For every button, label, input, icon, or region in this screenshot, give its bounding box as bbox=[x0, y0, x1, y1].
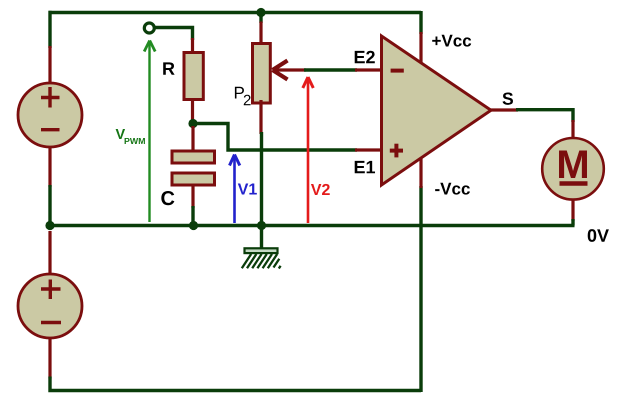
label V2 bbox=[311, 184, 330, 195]
op-amp U1 bbox=[382, 36, 492, 185]
arrow VPWM bbox=[144, 41, 155, 223]
wire -Vcc vertical bbox=[419, 186, 422, 392]
battery B1 top pin bbox=[48, 46, 51, 84]
op-amp U1 inverting marker bbox=[391, 69, 404, 73]
resistor R pin bottom bbox=[191, 98, 194, 123]
label -Vcc bbox=[435, 183, 470, 195]
junction top bus/P2 bbox=[256, 8, 265, 17]
wire top bus bbox=[49, 11, 422, 14]
wire wiper to E2 bbox=[304, 68, 357, 71]
label R bbox=[163, 62, 174, 74]
wire output to motor bbox=[516, 110, 573, 122]
wire +Vcc drop from top bus bbox=[419, 11, 422, 34]
battery B2 bottom pin bbox=[48, 337, 51, 379]
op-amp U1 +Vcc pin bbox=[419, 32, 422, 63]
junction left/0V bus bbox=[45, 221, 54, 230]
wire R/C node to E1 bbox=[195, 124, 357, 151]
capacitor C pin top bbox=[191, 126, 194, 152]
arrow V1 bbox=[230, 155, 240, 224]
terminal node VPWM bbox=[144, 23, 154, 33]
wire P2 to 0V bus bbox=[260, 132, 263, 226]
battery B2 top pin bbox=[48, 231, 51, 275]
wire bottom-left corner to -Vcc bus bbox=[50, 377, 421, 391]
op-amp U1 -Vcc pin bbox=[419, 158, 422, 188]
resistor R bbox=[184, 53, 203, 100]
label C bbox=[161, 191, 174, 205]
resistor R pin top bbox=[191, 38, 194, 55]
label P2 bbox=[235, 87, 251, 105]
potentiometer P2 body bbox=[253, 44, 271, 104]
wire ground stub bbox=[260, 226, 263, 250]
junction C/0V bus bbox=[189, 221, 198, 230]
capacitor C top plate bbox=[172, 151, 215, 163]
op-amp U1 E1 pin bbox=[355, 148, 382, 151]
battery B2 bbox=[18, 274, 82, 338]
arrow V2 bbox=[303, 77, 314, 223]
label E1 bbox=[355, 161, 375, 173]
potentiometer P2 wiper arrow bbox=[273, 61, 307, 80]
label V1 bbox=[238, 183, 257, 194]
ground symbol bbox=[242, 248, 281, 268]
label +Vcc bbox=[432, 35, 471, 47]
wire 0V bus bbox=[50, 224, 575, 227]
op-amp U1 E2 pin bbox=[355, 68, 382, 71]
capacitor C pin bottom bbox=[191, 185, 194, 208]
label S bbox=[503, 92, 513, 104]
battery B1 bottom pin bbox=[48, 146, 51, 187]
motor M pin top bbox=[571, 120, 574, 139]
op-amp U1 non-inverting marker bbox=[390, 144, 403, 158]
wire top bus to P2 bbox=[259, 13, 262, 24]
label 0V bbox=[588, 229, 609, 242]
wire node to resistor R bbox=[155, 28, 193, 41]
label VPWM bbox=[116, 129, 145, 144]
op-amp U1 output pin bbox=[489, 108, 518, 111]
battery B1 bbox=[18, 83, 82, 147]
motor M pin bottom bbox=[571, 200, 574, 221]
capacitor C bottom plate bbox=[172, 173, 215, 185]
potentiometer P2 pin bottom bbox=[259, 100, 262, 134]
junction P2/0V bus bbox=[257, 221, 266, 230]
wire motor to 0V bus bbox=[571, 219, 574, 226]
label E2 bbox=[355, 51, 375, 64]
wire left vertical from top bus bbox=[48, 11, 51, 48]
wire left vertical to 0V bus bbox=[48, 185, 51, 226]
potentiometer P2 pin top bbox=[259, 22, 262, 47]
wire C to 0V bus bbox=[191, 206, 194, 226]
junction R/C node bbox=[188, 119, 197, 128]
motor M bbox=[542, 138, 604, 200]
